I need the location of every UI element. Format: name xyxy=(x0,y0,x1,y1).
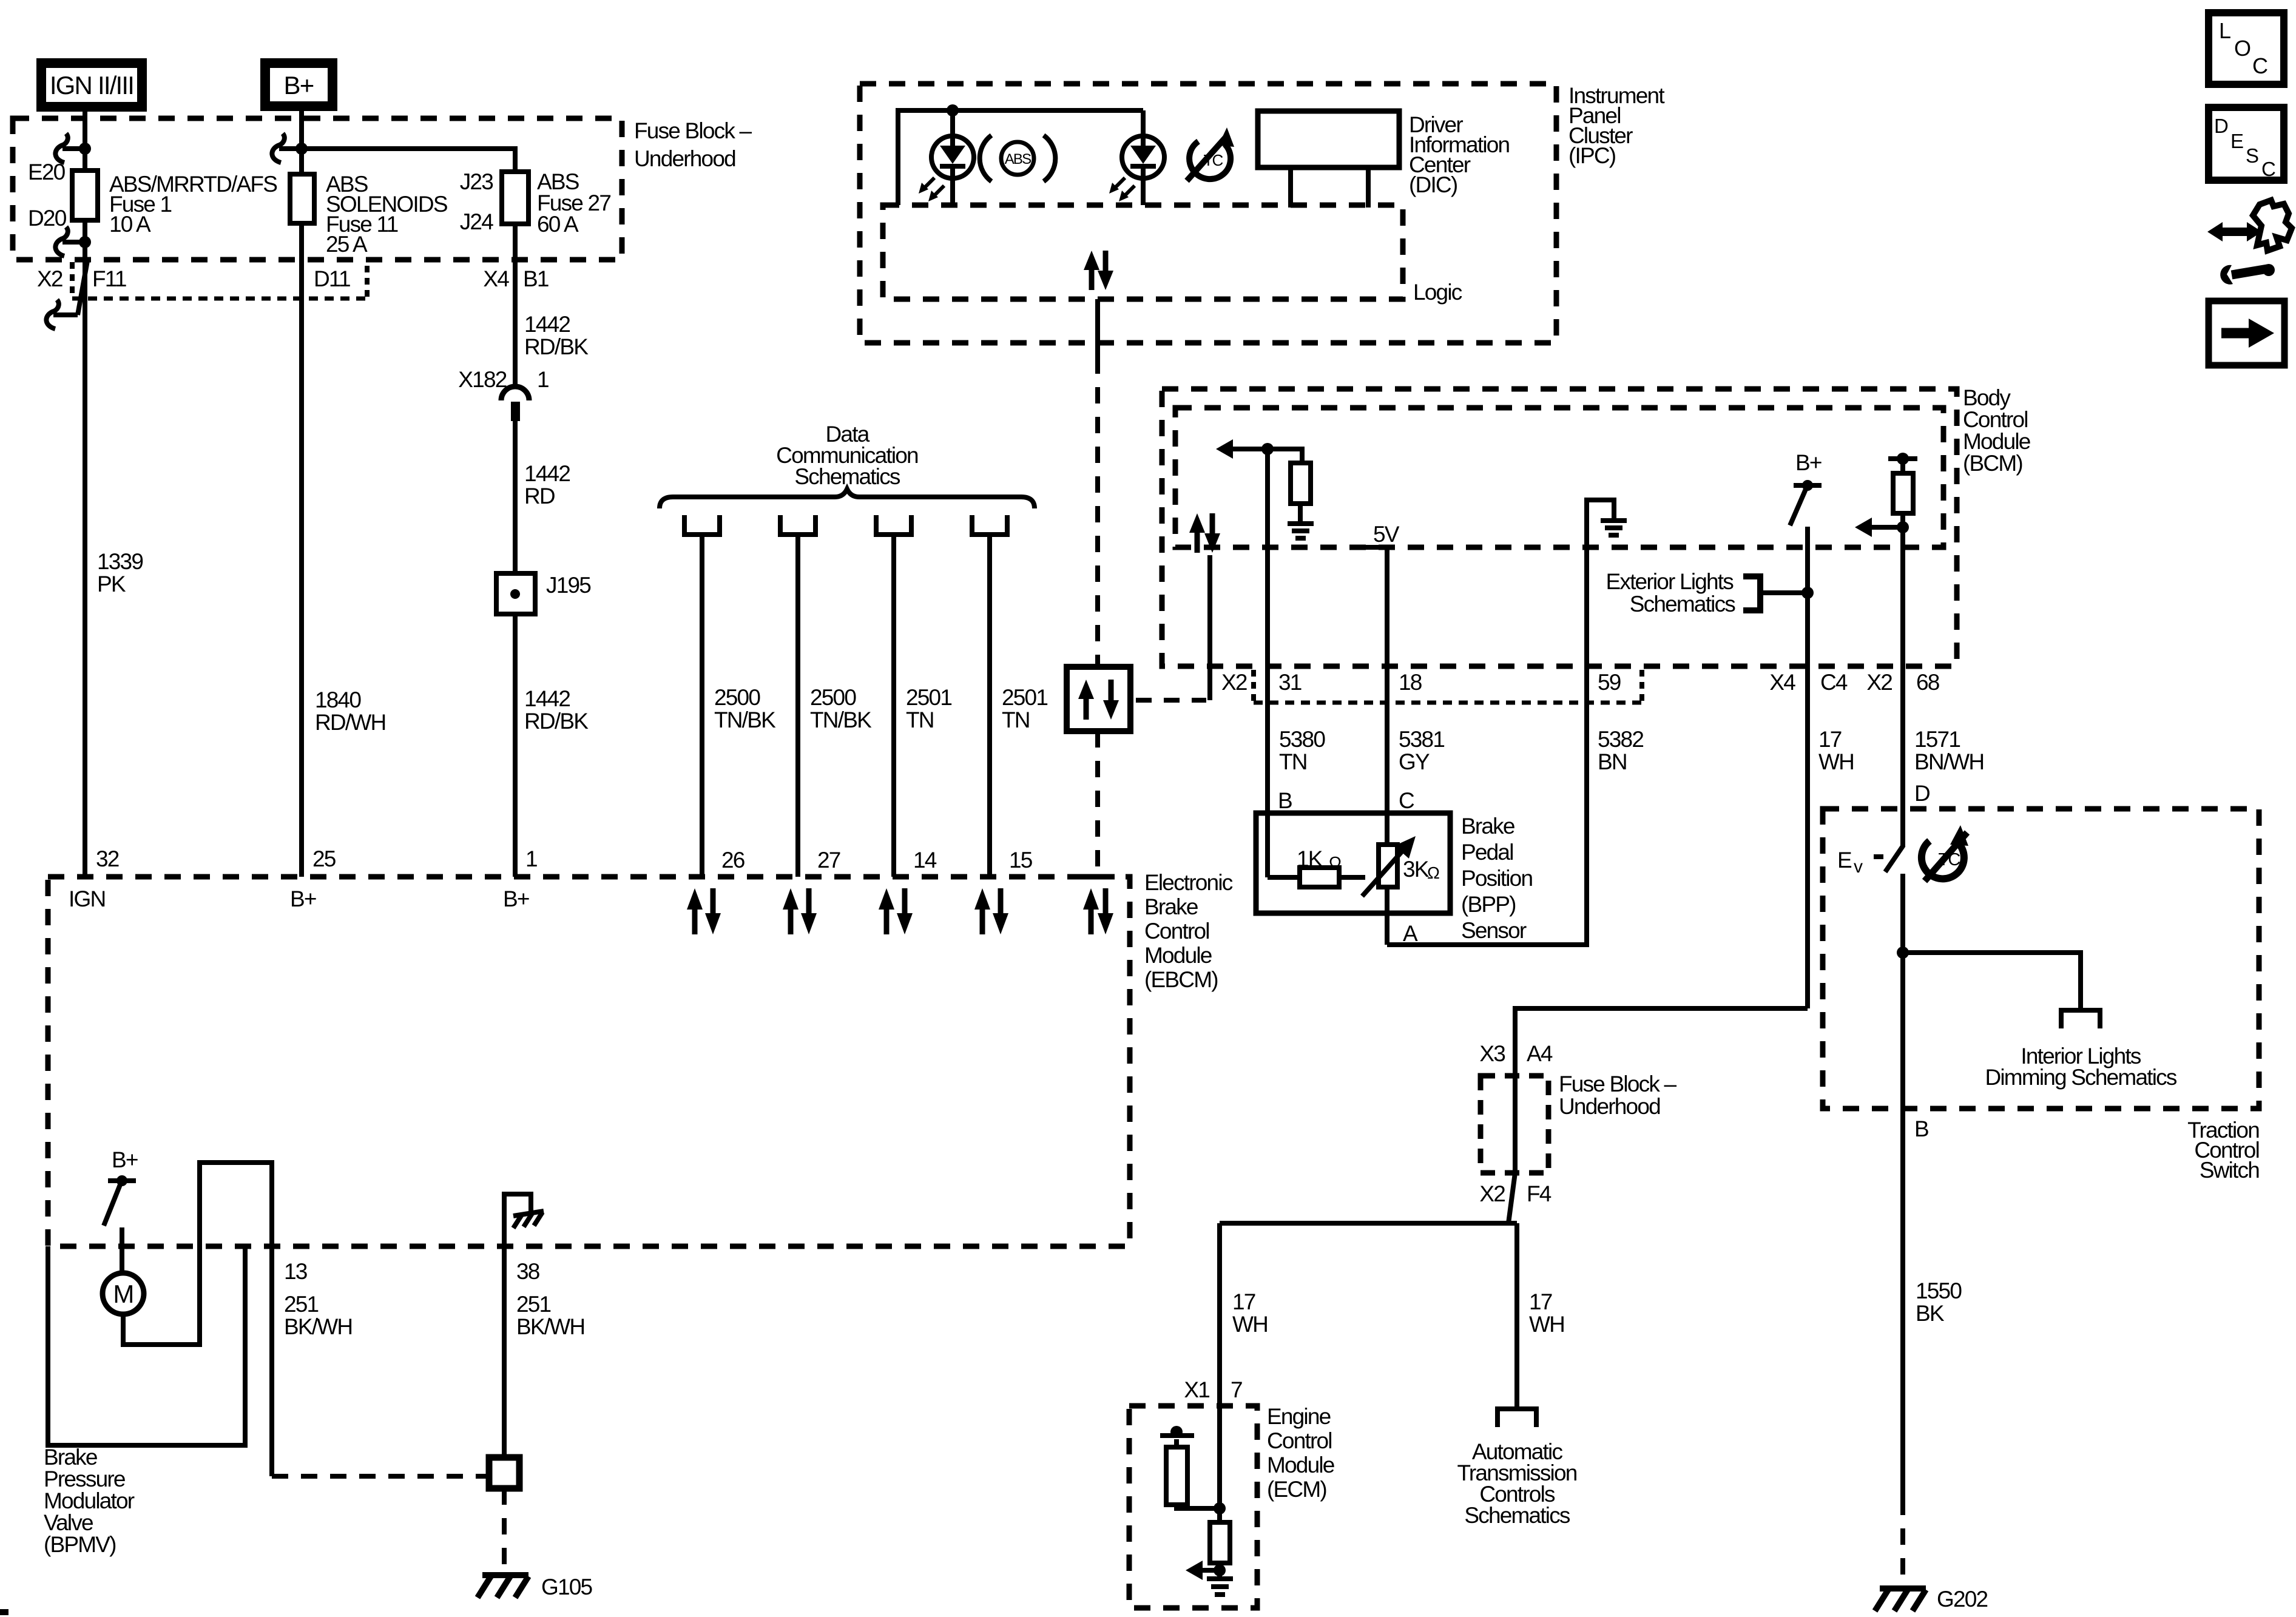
node junction at fuse 11 top xyxy=(295,143,308,155)
wire B+ vertical (fuse 11 feed) xyxy=(299,104,304,877)
ECM internal arrow to logic xyxy=(1186,1561,1220,1580)
svg-text:EngineControlModule(ECM): EngineControlModule(ECM) xyxy=(1267,1404,1334,1502)
svg-text:B: B xyxy=(1914,1116,1928,1141)
power label box IGN II/III xyxy=(41,63,142,107)
svg-text:X182: X182 xyxy=(458,367,512,392)
LED TC warning indicator xyxy=(1109,136,1164,201)
offpage connector interior lights xyxy=(2061,1010,2100,1028)
svg-text:31: 31 xyxy=(1278,670,1302,695)
node junction at fuse 1 top xyxy=(79,143,91,155)
icon box arrow right xyxy=(2209,301,2284,365)
wire serial data dashed to splice box xyxy=(1095,357,1100,667)
svg-text:C: C xyxy=(2261,158,2275,180)
svg-text:5V: 5V xyxy=(1373,522,1400,547)
svg-text:C4: C4 xyxy=(1820,670,1848,695)
wire 2501 TN (pin 14) xyxy=(891,535,896,877)
BPP sensor box xyxy=(1256,813,1450,913)
wire resistor to ground xyxy=(1298,504,1303,522)
svg-text:F11: F11 xyxy=(92,266,126,291)
LED ABS warning indicator xyxy=(919,136,974,201)
BCM 5V supply bar xyxy=(1359,545,1388,550)
wire exterior lights tap xyxy=(1760,590,1808,595)
wire 1442 RD xyxy=(513,421,518,573)
wire to interior lights dimming xyxy=(1903,953,2081,1010)
wire 13 dashed to splice xyxy=(272,1474,489,1479)
resistor BCM pin31 pullup xyxy=(1291,463,1311,504)
wire IGN vertical (1339 PK run) xyxy=(83,104,87,877)
svg-text:59: 59 xyxy=(1598,670,1621,695)
wire TCS internal xyxy=(1900,874,1905,1109)
svg-text:3K: 3K xyxy=(1403,857,1430,882)
driver information center DIC box xyxy=(1258,111,1399,167)
node junction ECM xyxy=(1214,1502,1226,1514)
fuse F27 body xyxy=(502,172,528,224)
svg-text:Fuse Block –Underhood: Fuse Block –Underhood xyxy=(1559,1072,1676,1119)
switch traction control xyxy=(1885,845,1903,872)
wire DIC right leg xyxy=(1366,167,1371,208)
svg-text:Logic: Logic xyxy=(1413,280,1462,305)
BCM supply bar (pin 68) xyxy=(1888,456,1917,461)
wire DIC left leg xyxy=(1288,167,1293,208)
ground G105 xyxy=(478,1575,528,1598)
svg-text:14: 14 xyxy=(913,848,937,873)
wire 1K to potentiometer xyxy=(1339,875,1365,880)
wire ABS indicator drop xyxy=(950,110,955,205)
serial arrows at EBCM pin 14 xyxy=(879,888,913,934)
svg-text:E: E xyxy=(2230,130,2243,152)
svg-text:O: O xyxy=(2234,36,2250,61)
svg-text:X2: X2 xyxy=(37,266,62,291)
svg-text:B1: B1 xyxy=(523,266,549,291)
fuse block underhood small dashed box (X3/A4) xyxy=(1481,1076,1548,1173)
wire BCM pin 68 drop xyxy=(1900,513,1905,669)
wire motor return loop xyxy=(123,1163,272,1476)
offpage connector automatic transmission xyxy=(1497,1409,1536,1427)
wire splice dashed to G105 xyxy=(502,1488,507,1571)
svg-text:M: M xyxy=(113,1280,133,1308)
wire 1550 BK dashed to ground xyxy=(1900,1499,1905,1581)
wire B+ branch to fuse 27 xyxy=(302,149,515,172)
wire fuse 27 to X4/B1 xyxy=(513,224,518,387)
svg-text:B+: B+ xyxy=(284,71,314,100)
wire BCM pin 59 to internal ground xyxy=(1587,500,1614,669)
icon box DESC xyxy=(2209,107,2284,180)
svg-text:B+: B+ xyxy=(503,886,529,911)
wire ECM branch to pullup xyxy=(1177,1439,1220,1508)
node junction at fuse 1 bottom xyxy=(79,236,91,248)
wire serial data dashed to EBCM xyxy=(1095,731,1100,873)
svg-text:D: D xyxy=(2214,115,2228,137)
wire ECM pin 7 internal xyxy=(1217,1406,1222,1522)
EBCM dashed box xyxy=(48,877,1130,1246)
wire 38 pin stub to chassis ground xyxy=(504,1194,531,1246)
splice block xyxy=(489,1457,519,1488)
potentiometer wiper arrow xyxy=(1362,836,1416,896)
BCM outer dashed box xyxy=(1162,389,1957,666)
node junction TCS lighting tap xyxy=(1897,947,1909,959)
wire 2500 TN/BK (pin 27) xyxy=(795,535,800,877)
wire 17 WH branch horizontal xyxy=(1220,1221,1517,1226)
svg-text:A: A xyxy=(1403,921,1418,946)
svg-text:X2: X2 xyxy=(1221,670,1247,695)
svg-text:L: L xyxy=(2219,18,2230,43)
icon TC (switch) xyxy=(1922,825,1968,881)
svg-text:38: 38 xyxy=(516,1259,539,1284)
svg-text:ABS: ABS xyxy=(1005,151,1031,167)
wire 1442 RD/BK to EBCM pin 1 xyxy=(513,614,518,877)
svg-text:G105: G105 xyxy=(541,1575,593,1599)
offpage connector pin 27 xyxy=(780,515,815,535)
ground BCM internal (pin59) xyxy=(1601,521,1627,535)
svg-text:1: 1 xyxy=(525,846,537,871)
ECM dashed box xyxy=(1129,1406,1257,1608)
wire switch to motor xyxy=(120,1227,124,1273)
svg-text:13: 13 xyxy=(284,1259,307,1284)
svg-text:7: 7 xyxy=(1231,1377,1242,1402)
node junction at ABS indicator xyxy=(947,104,959,116)
ground G202 xyxy=(1875,1588,1926,1611)
wire F4 jog xyxy=(1508,1173,1515,1223)
wire 2500 TN/BK (pin 26) xyxy=(700,535,704,877)
wire BCM pin 18 drop xyxy=(1385,547,1389,669)
wire serial data from logic (solid) xyxy=(1095,299,1100,357)
wire to pullup resistor xyxy=(1268,449,1302,463)
svg-text:D11: D11 xyxy=(314,266,350,291)
svg-text:Ω: Ω xyxy=(1329,853,1341,872)
BCM pin68 internal arrow to logic xyxy=(1855,518,1903,537)
wire 1550 BK xyxy=(1900,1109,1905,1499)
svg-text:C: C xyxy=(1399,788,1414,813)
svg-text:25: 25 xyxy=(312,846,336,871)
svg-text:G202: G202 xyxy=(1937,1587,1988,1612)
motor M pump xyxy=(103,1273,144,1314)
connector clip at fuse 11 top xyxy=(272,133,297,163)
separator dotted after 59 xyxy=(1639,670,1644,703)
serial arrows at EBCM pin 27 xyxy=(783,888,817,934)
wire 17 WH to fuse block X3/A4 xyxy=(1515,1008,1808,1076)
wire 5380 into 1K resistor xyxy=(1268,875,1300,880)
svg-text:B+: B+ xyxy=(112,1147,138,1172)
svg-text:Ω: Ω xyxy=(1427,863,1439,882)
svg-text:S: S xyxy=(2246,144,2258,167)
svg-text:18: 18 xyxy=(1399,670,1422,695)
wire through fuse block X3-X2 xyxy=(1513,1076,1518,1173)
svg-text:X4: X4 xyxy=(483,266,509,291)
wire BCM pin 31 drop xyxy=(1265,449,1270,669)
switch BPMV pump relay contact xyxy=(104,1175,136,1226)
node junction on supply bar xyxy=(1897,453,1909,465)
wire BCM pin C4 drop xyxy=(1805,527,1810,669)
fuse F1 body xyxy=(72,170,98,220)
svg-text:32: 32 xyxy=(96,846,119,871)
node junction on ECM supply bar xyxy=(1170,1426,1183,1438)
wire bar to resistor xyxy=(1900,459,1905,473)
BCM pin 31 internal: arrow to logic xyxy=(1216,439,1268,459)
svg-text:D: D xyxy=(1914,781,1930,806)
svg-text:X1: X1 xyxy=(1184,1377,1209,1402)
wire TC indicator drop xyxy=(1141,110,1146,205)
wire 17 WH to transmission xyxy=(1514,1223,1519,1408)
svg-text:Schematics: Schematics xyxy=(1630,592,1736,616)
chassis ground mini (pin 38) xyxy=(513,1211,544,1228)
svg-text:B+: B+ xyxy=(1795,450,1822,475)
serial data arrows in logic box xyxy=(1084,251,1113,290)
wire IPC indicator bus xyxy=(898,110,1143,205)
serial data EBCM terminal bar xyxy=(1081,874,1115,880)
wire 38 drop to splice xyxy=(502,1246,507,1457)
svg-text:X3: X3 xyxy=(1479,1041,1505,1066)
connector lead stub X2/F11 with clip xyxy=(46,261,87,329)
svg-text:1K: 1K xyxy=(1297,846,1323,871)
wire 17 WH (C4 upper) xyxy=(1805,669,1810,1008)
serial arrows at EBCM pin 26 xyxy=(687,888,721,934)
wire 1571 BN/WH xyxy=(1900,669,1905,846)
wire 2501 TN (pin 15) xyxy=(987,535,992,877)
wire serial data BCM entry xyxy=(1207,555,1212,700)
node junction exterior lights tap xyxy=(1801,587,1814,599)
svg-text:27: 27 xyxy=(817,848,840,873)
serial data arrows in gateway box xyxy=(1078,680,1119,720)
ground BCM internal (pin31) xyxy=(1288,524,1314,538)
svg-text:1: 1 xyxy=(537,367,549,392)
offpage connector pin 14 xyxy=(876,515,911,535)
wire 17 WH to ECM xyxy=(1217,1223,1222,1406)
svg-text:J195: J195 xyxy=(546,573,591,598)
BPMV solid outline xyxy=(48,1246,245,1445)
connector strip X2/F11 D11 dotted xyxy=(72,262,367,299)
svg-text:68: 68 xyxy=(1916,670,1939,695)
offpage connector pin 15 xyxy=(972,515,1007,535)
fuse block underhood dashed box xyxy=(13,118,622,260)
serial data gateway box xyxy=(1067,667,1130,731)
svg-text:AutomaticTransmissionControlsS: AutomaticTransmissionControlsSchematics xyxy=(1457,1439,1576,1528)
resistor BCM pin68 pullup xyxy=(1893,473,1913,513)
icon box LOC xyxy=(2209,13,2284,84)
svg-text:Exterior Lights: Exterior Lights xyxy=(1606,569,1734,594)
svg-text:J24: J24 xyxy=(460,209,493,234)
wire 5381 GY xyxy=(1385,669,1389,845)
svg-text:X2: X2 xyxy=(1866,670,1892,695)
resistor ECM pullup xyxy=(1166,1447,1187,1505)
potentiometer 3K BPP xyxy=(1379,845,1397,887)
svg-text:B: B xyxy=(1278,788,1292,813)
splice J195 xyxy=(496,573,535,614)
wire serial data gateway to BCM (dashed) xyxy=(1136,698,1206,703)
serial data arrows at BCM xyxy=(1189,513,1220,553)
svg-text:26: 26 xyxy=(721,848,745,873)
logic dashed box xyxy=(883,205,1403,299)
icon connector tool with arrow and wrench xyxy=(2207,200,2292,285)
switch linkage dash xyxy=(1874,854,1883,859)
svg-text:IGN: IGN xyxy=(69,886,105,911)
connector strip fine dashed (BCM) xyxy=(1254,701,1642,705)
svg-text:A4: A4 xyxy=(1527,1041,1553,1066)
svg-text:B+: B+ xyxy=(290,886,316,911)
offpage connector pin 26 xyxy=(684,515,720,535)
svg-text:E: E xyxy=(1837,848,1852,873)
icon ABS brake symbol xyxy=(980,135,1056,181)
resistor 1K BPP xyxy=(1300,868,1339,887)
svg-text:X2: X2 xyxy=(1479,1181,1505,1206)
wire pot to pin A xyxy=(1385,887,1389,945)
wire 5380 TN xyxy=(1265,669,1270,877)
serial arrows at EBCM pin 15 xyxy=(974,888,1008,934)
svg-text:IGN II/III: IGN II/III xyxy=(50,71,133,100)
traction control switch dashed box xyxy=(1823,809,2259,1109)
fuse F11 body xyxy=(290,174,314,223)
svg-text:X4: X4 xyxy=(1769,670,1795,695)
ground ECM internal xyxy=(1207,1570,1233,1595)
separator dotted X2/31 xyxy=(1251,670,1256,703)
svg-text:v: v xyxy=(1854,857,1863,877)
svg-text:C: C xyxy=(2252,53,2267,78)
inline connector X182 xyxy=(501,387,529,421)
node junction below resistor xyxy=(1897,521,1909,533)
svg-text:D20: D20 xyxy=(28,206,67,231)
brace data communication xyxy=(660,489,1035,508)
svg-text:F4: F4 xyxy=(1527,1181,1551,1206)
stray mark bottom-left corner xyxy=(0,1609,8,1615)
svg-text:J23: J23 xyxy=(460,169,493,194)
switch BCM traction request xyxy=(1790,480,1822,525)
svg-text:15: 15 xyxy=(1009,848,1033,873)
icon TC off symbol xyxy=(1187,127,1234,181)
ECM supply bar xyxy=(1160,1433,1194,1438)
serial data arrows at EBCM xyxy=(1083,888,1113,934)
resistor ECM pulldown xyxy=(1210,1522,1230,1563)
connector clip at fuse 1 bottom (D20) xyxy=(55,227,80,256)
connector clip at fuse 1 top (E20) xyxy=(55,133,80,163)
power label box B+ xyxy=(265,63,333,106)
bracket exterior lights xyxy=(1743,576,1760,610)
svg-text:E20: E20 xyxy=(28,160,66,184)
wire 5382 BN xyxy=(1387,669,1587,945)
BCM inner dashed box xyxy=(1175,408,1943,547)
instrument panel cluster IPC dashed box xyxy=(860,84,1556,343)
node junction BCM pin31 xyxy=(1261,443,1274,455)
node junction ECM ground xyxy=(1214,1564,1226,1576)
